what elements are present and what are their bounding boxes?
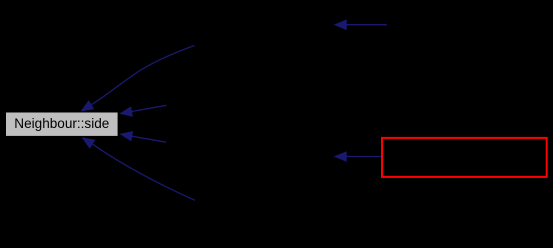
svg-text:Neighbour::side: Neighbour::side bbox=[14, 116, 109, 131]
